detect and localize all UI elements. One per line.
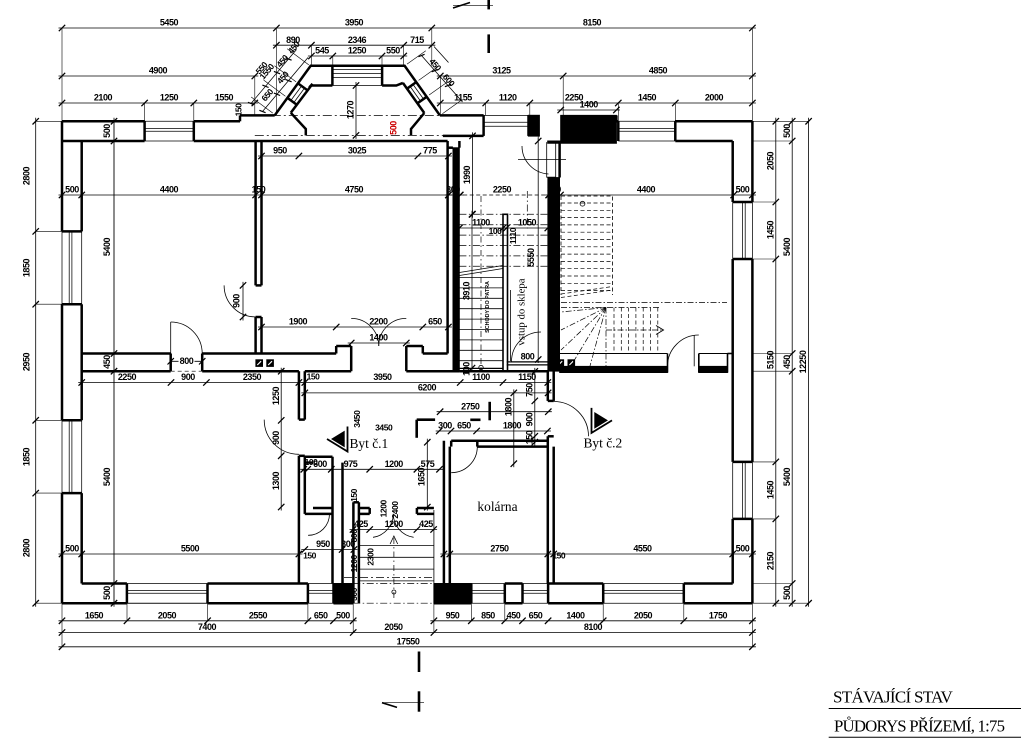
svg-text:17550: 17550 bbox=[397, 636, 420, 646]
svg-text:1800: 1800 bbox=[503, 421, 522, 431]
svg-text:1250: 1250 bbox=[160, 93, 179, 103]
svg-text:2750: 2750 bbox=[490, 544, 509, 554]
svg-text:2550: 2550 bbox=[249, 610, 268, 620]
window top W2 (right of bay) bbox=[443, 115, 529, 135]
svg-text:SCHODY DO PATRA: SCHODY DO PATRA bbox=[485, 281, 491, 333]
dashed lower flight + direction fan + arrow bbox=[561, 303, 727, 367]
dim 800 cellar door bbox=[521, 352, 535, 362]
svg-text:500: 500 bbox=[529, 120, 539, 134]
byt2 apartment door arc bbox=[554, 402, 589, 437]
svg-text:8100: 8100 bbox=[584, 622, 603, 632]
svg-text:2250: 2250 bbox=[493, 185, 512, 195]
wall leftroom/centerroom bbox=[256, 141, 262, 354]
entry left jamb pier (solid) bbox=[529, 115, 540, 136]
svg-text:1250: 1250 bbox=[348, 46, 367, 56]
svg-text:2150: 2150 bbox=[765, 551, 775, 570]
back exterior stairs treads + arrow bbox=[353, 510, 434, 604]
svg-text:2050: 2050 bbox=[765, 151, 775, 170]
svg-text:650: 650 bbox=[314, 610, 328, 620]
dim 5400 interior left bbox=[102, 118, 117, 607]
svg-text:500: 500 bbox=[336, 610, 350, 620]
dim line R 6200 bbox=[301, 383, 551, 397]
svg-text:1200: 1200 bbox=[378, 500, 388, 518]
double door arcs center room (1400) bbox=[351, 318, 406, 346]
svg-text:975: 975 bbox=[344, 459, 358, 469]
kolarna door arc bbox=[451, 447, 477, 473]
label Byt c.2 text bbox=[584, 436, 623, 451]
svg-text:1400: 1400 bbox=[369, 333, 388, 343]
svg-text:1270: 1270 bbox=[346, 100, 356, 119]
wall left exterior inner face pier3 bbox=[80, 493, 83, 583]
svg-text:300: 300 bbox=[349, 587, 359, 601]
svg-text:vstup do sklepa: vstup do sklepa bbox=[516, 278, 528, 345]
wall top right-of-bay outer face bbox=[440, 114, 484, 117]
svg-text:PŮDORYS PŘÍZEMÍ, 1:75: PŮDORYS PŘÍZEMÍ, 1:75 bbox=[834, 717, 1005, 736]
svg-text:1750: 1750 bbox=[709, 610, 728, 620]
svg-text:2800: 2800 bbox=[22, 166, 32, 185]
wall top-left inner face pierB bbox=[194, 140, 448, 143]
dim chain top row C bbox=[308, 46, 407, 60]
mid wall right room boundary thin bbox=[560, 353, 668, 355]
svg-text:5500: 5500 bbox=[181, 544, 200, 554]
hall south wall under stairs bbox=[459, 368, 547, 371]
wall right exterior inner face pier3 bbox=[731, 519, 734, 584]
svg-text:4750: 4750 bbox=[345, 185, 364, 195]
dim line U small chain bbox=[300, 457, 443, 473]
window bottom W1b (under wc room) bbox=[308, 584, 334, 604]
chimney flues left (two black squares) bbox=[256, 360, 274, 367]
svg-text:7400: 7400 bbox=[198, 622, 217, 632]
svg-text:100: 100 bbox=[305, 457, 319, 467]
dim chain top row B bbox=[273, 35, 435, 49]
stair treads upper stair bbox=[459, 191, 547, 365]
dim chain top row D bbox=[59, 66, 756, 80]
hall right wall (300) bbox=[548, 141, 560, 371]
svg-text:500: 500 bbox=[102, 124, 112, 138]
svg-text:850: 850 bbox=[481, 610, 495, 620]
svg-text:3450: 3450 bbox=[375, 423, 393, 433]
svg-text:450: 450 bbox=[782, 355, 792, 369]
title rule 2 bbox=[829, 736, 1021, 738]
svg-text:4550: 4550 bbox=[633, 544, 652, 554]
wall left exterior outer face bbox=[61, 121, 64, 603]
svg-text:STÁVAJÍCÍ STAV: STÁVAJÍCÍ STAV bbox=[833, 688, 953, 707]
wall top-right outer face bbox=[616, 115, 752, 121]
dim chain left F bbox=[22, 118, 39, 607]
svg-text:3450: 3450 bbox=[352, 410, 362, 428]
svg-text:500: 500 bbox=[65, 185, 79, 195]
bay flat-top window bbox=[332, 66, 382, 86]
svg-text:3950: 3950 bbox=[373, 372, 392, 382]
svg-text:4850: 4850 bbox=[649, 66, 668, 76]
svg-text:950: 950 bbox=[273, 146, 287, 156]
dim W byt1 door vertical bbox=[271, 368, 285, 511]
svg-text:2350: 2350 bbox=[243, 372, 262, 382]
hall left wall (300) bbox=[448, 141, 460, 371]
svg-text:900: 900 bbox=[271, 431, 281, 445]
svg-text:5550: 5550 bbox=[526, 248, 536, 267]
wall bottom pier kolarna (solid) bbox=[434, 584, 471, 604]
svg-text:150: 150 bbox=[303, 551, 317, 561]
svg-text:5400: 5400 bbox=[782, 237, 792, 256]
svg-text:2400: 2400 bbox=[390, 501, 400, 519]
dim back stairs verticals bbox=[349, 488, 400, 601]
dim diag bay left outer bbox=[248, 39, 302, 105]
dim chain bottom K bbox=[59, 610, 756, 624]
mid wall upper face bbox=[82, 352, 448, 355]
title line 1 bbox=[833, 688, 953, 707]
dim small 1100 1050 bbox=[456, 218, 551, 236]
svg-text:1800: 1800 bbox=[503, 397, 513, 416]
dim 425 1200 425 bbox=[350, 519, 438, 533]
back porch walls bbox=[353, 502, 434, 603]
window bottom W1 bbox=[127, 584, 208, 604]
window bottom W3 (kolarna b) bbox=[505, 584, 548, 604]
title line 2 bbox=[834, 717, 1005, 736]
mid wall lower face bbox=[82, 370, 460, 373]
dim Z 1650 vertical bbox=[417, 439, 431, 511]
svg-text:545: 545 bbox=[315, 46, 329, 56]
dim chain top row A bbox=[59, 18, 756, 32]
svg-text:950: 950 bbox=[446, 610, 460, 620]
svg-text:3950: 3950 bbox=[345, 18, 364, 28]
svg-text:300: 300 bbox=[438, 421, 452, 431]
wall top-left inner face pierA bbox=[62, 140, 145, 143]
dim chain bottom L bbox=[59, 622, 756, 636]
svg-text:1400: 1400 bbox=[566, 610, 585, 620]
svg-text:2346: 2346 bbox=[348, 35, 367, 45]
dim chain top row E bbox=[59, 93, 756, 107]
center room south recess bbox=[336, 346, 423, 371]
porch double door arcs bbox=[344, 514, 434, 578]
svg-text:4400: 4400 bbox=[637, 185, 656, 195]
svg-text:900: 900 bbox=[181, 372, 195, 382]
stair walk line with circle bbox=[479, 196, 483, 370]
svg-text:1650: 1650 bbox=[417, 467, 427, 486]
dim chain right H bbox=[765, 118, 779, 607]
svg-text:2000: 2000 bbox=[705, 93, 724, 103]
svg-text:150: 150 bbox=[349, 488, 359, 502]
svg-text:5400: 5400 bbox=[102, 467, 112, 486]
svg-text:1110: 1110 bbox=[508, 227, 518, 244]
svg-text:425: 425 bbox=[354, 519, 368, 529]
svg-text:425: 425 bbox=[419, 519, 433, 529]
svg-text:100: 100 bbox=[489, 226, 503, 236]
dim 3910 stair bbox=[462, 211, 476, 372]
svg-text:1650: 1650 bbox=[85, 610, 104, 620]
dim center room O bbox=[258, 146, 452, 160]
svg-text:150: 150 bbox=[552, 551, 566, 561]
svg-text:kolárna: kolárna bbox=[477, 499, 517, 514]
svg-text:1250: 1250 bbox=[271, 386, 281, 405]
svg-text:5400: 5400 bbox=[782, 467, 792, 486]
wall left exterior inner face pier1 bbox=[80, 141, 83, 231]
dim 2750 brackets bbox=[417, 401, 552, 438]
dim chain right J bbox=[798, 118, 812, 607]
svg-text:150: 150 bbox=[524, 430, 534, 444]
svg-text:1450: 1450 bbox=[765, 480, 775, 499]
svg-text:500: 500 bbox=[782, 124, 792, 138]
extension line entry bbox=[537, 129, 539, 141]
dashed stair flight above (upper run) bbox=[561, 196, 613, 298]
svg-text:500: 500 bbox=[65, 544, 79, 554]
svg-text:12250: 12250 bbox=[798, 350, 808, 373]
svg-text:500: 500 bbox=[736, 544, 750, 554]
extension lines right bbox=[752, 121, 808, 603]
svg-text:100: 100 bbox=[462, 362, 472, 376]
svg-text:2250: 2250 bbox=[118, 372, 137, 382]
svg-text:500: 500 bbox=[736, 185, 750, 195]
cellar door arc bbox=[512, 332, 542, 362]
svg-text:3910: 3910 bbox=[462, 281, 472, 300]
dim diag bay right bbox=[418, 47, 462, 103]
dim 3450 labels bbox=[352, 410, 393, 433]
svg-text:1300: 1300 bbox=[271, 471, 281, 490]
svg-text:1150: 1150 bbox=[518, 372, 536, 382]
svg-text:900: 900 bbox=[524, 412, 534, 426]
svg-text:650: 650 bbox=[529, 610, 543, 620]
dim interior line N (y=195) bbox=[59, 185, 756, 199]
section mark bottom bbox=[382, 652, 424, 712]
dim chain bottom M bbox=[59, 636, 756, 650]
svg-text:300: 300 bbox=[341, 539, 355, 549]
title rule 1 bbox=[829, 708, 1021, 710]
mid wall door jambs (left room door 800) bbox=[168, 354, 206, 372]
svg-text:2050: 2050 bbox=[634, 610, 653, 620]
wall bottom inner pier right bbox=[548, 582, 733, 585]
dim diag bay left inner bbox=[259, 58, 308, 113]
wall left exterior inner face pier2 bbox=[80, 304, 83, 420]
svg-text:2100: 2100 bbox=[94, 93, 113, 103]
mid wall right solid band bbox=[560, 354, 733, 373]
stair divider bar bbox=[503, 214, 508, 371]
wall right exterior inner face pier1 bbox=[731, 141, 734, 202]
bay left diagonal window bbox=[288, 84, 308, 105]
svg-text:1100: 1100 bbox=[472, 218, 490, 228]
window bottom W2 (kolarna a) bbox=[471, 584, 505, 604]
dim line T 300 650 1800 bbox=[436, 421, 551, 435]
dim line Q (y=382.5) bbox=[78, 372, 551, 386]
dim chain right I bbox=[782, 118, 796, 607]
window left W2 sill lines bbox=[62, 420, 82, 493]
svg-text:2050: 2050 bbox=[158, 610, 177, 620]
svg-text:800: 800 bbox=[180, 356, 194, 366]
svg-text:1200: 1200 bbox=[385, 519, 404, 529]
extension lines left bbox=[36, 121, 62, 603]
dim 1990 entry hall bbox=[462, 132, 476, 217]
byt1 apartment door arc bbox=[264, 420, 299, 455]
wall bottom pier porch-left (solid) bbox=[334, 584, 354, 604]
kolarna left wall bbox=[444, 441, 450, 584]
window top W3 bbox=[618, 121, 675, 141]
svg-text:1990: 1990 bbox=[462, 165, 472, 184]
byt2 north door jambs bbox=[668, 354, 728, 373]
window right W2 bbox=[733, 462, 753, 519]
dim center room P bbox=[258, 317, 452, 347]
bay diag extension lines right bbox=[407, 51, 461, 114]
section mark top bbox=[453, 0, 493, 53]
dim Y 1800 vertical bbox=[503, 389, 517, 467]
svg-text:300: 300 bbox=[446, 185, 460, 195]
wall bottom inner left pier bbox=[82, 582, 127, 585]
dim 500 entry rot bbox=[529, 120, 539, 134]
svg-text:650: 650 bbox=[457, 421, 471, 431]
label kolarna bbox=[477, 499, 517, 514]
wall top-left outer face bbox=[62, 115, 275, 121]
label vstup do sklepa bbox=[516, 278, 528, 345]
svg-text:150: 150 bbox=[234, 103, 244, 117]
bay right flank inner faces bbox=[382, 83, 424, 135]
svg-text:5450: 5450 bbox=[160, 18, 179, 28]
svg-text:450: 450 bbox=[102, 355, 112, 369]
door arc leftroom/centerroom (900) bbox=[224, 285, 256, 317]
svg-text:1200: 1200 bbox=[385, 459, 404, 469]
bay right diagonal window bbox=[407, 82, 427, 103]
svg-text:500: 500 bbox=[782, 586, 792, 600]
svg-text:4400: 4400 bbox=[160, 185, 179, 195]
svg-text:1120: 1120 bbox=[499, 93, 517, 103]
dim 900 room door vertical bbox=[232, 282, 247, 321]
bay opening centerlines dash-dot bbox=[255, 115, 474, 135]
svg-text:1100: 1100 bbox=[472, 372, 490, 382]
wc room walls bbox=[305, 457, 343, 584]
svg-text:Byt č.2: Byt č.2 bbox=[584, 436, 623, 451]
svg-text:300: 300 bbox=[547, 185, 561, 195]
svg-text:900: 900 bbox=[232, 294, 242, 308]
svg-text:1550: 1550 bbox=[215, 93, 234, 103]
bay window outer walls bbox=[275, 66, 440, 116]
svg-text:575: 575 bbox=[421, 459, 435, 469]
entry door leaf and arc bbox=[518, 142, 566, 177]
svg-text:1400: 1400 bbox=[580, 100, 599, 110]
svg-text:650: 650 bbox=[428, 317, 442, 327]
svg-text:8150: 8150 bbox=[583, 18, 602, 28]
label 150 top step bbox=[234, 103, 244, 117]
svg-text:4900: 4900 bbox=[149, 66, 168, 76]
svg-text:750: 750 bbox=[524, 383, 534, 397]
svg-text:715: 715 bbox=[410, 35, 424, 45]
svg-text:500: 500 bbox=[389, 121, 399, 135]
wall top-right inner face bbox=[675, 140, 732, 143]
kolarna top wall bbox=[451, 441, 548, 447]
wall bottom outer face bbox=[62, 602, 752, 605]
interior guide vertical x=114 bbox=[113, 121, 115, 603]
label Byt c.1 text bbox=[350, 436, 389, 451]
wc door arc bbox=[308, 514, 329, 535]
svg-text:Byt č.1: Byt č.1 bbox=[350, 436, 389, 451]
svg-text:3025: 3025 bbox=[348, 146, 367, 156]
corridor left wall bbox=[299, 371, 305, 583]
svg-text:1050: 1050 bbox=[518, 218, 537, 228]
label 100 stair bbox=[462, 362, 472, 376]
label SCHODY DO PATRA bbox=[485, 281, 491, 333]
svg-text:1850: 1850 bbox=[22, 258, 32, 277]
svg-text:1850: 1850 bbox=[22, 447, 32, 466]
wall right exterior inner face pier2 bbox=[731, 259, 734, 462]
byt2 left wall bbox=[548, 371, 554, 583]
svg-text:550: 550 bbox=[386, 46, 400, 56]
svg-text:775: 775 bbox=[423, 146, 437, 156]
window left W1 sill lines bbox=[62, 231, 82, 304]
window top W1 bbox=[145, 121, 194, 141]
bay left flank inner faces bbox=[291, 84, 333, 135]
svg-text:500: 500 bbox=[102, 586, 112, 600]
chimney flues right (two black squares) bbox=[557, 360, 575, 367]
label Byt c.1 triangle bbox=[327, 427, 348, 452]
svg-text:5400: 5400 bbox=[102, 237, 112, 256]
svg-text:2750: 2750 bbox=[461, 401, 480, 411]
dim line V (y=554) bbox=[59, 544, 756, 561]
bay offset label 500 red bbox=[389, 121, 399, 135]
dim X byt2 door vertical bbox=[524, 368, 538, 446]
svg-text:150: 150 bbox=[307, 372, 321, 382]
svg-text:1450: 1450 bbox=[765, 220, 775, 239]
svg-text:6200: 6200 bbox=[418, 383, 437, 393]
svg-text:3125: 3125 bbox=[492, 66, 511, 76]
svg-text:1200: 1200 bbox=[349, 555, 359, 573]
extension lines top bbox=[62, 28, 752, 121]
svg-text:800: 800 bbox=[521, 352, 535, 362]
label Byt c.2 triangle bbox=[592, 408, 613, 433]
svg-text:1450: 1450 bbox=[638, 93, 657, 103]
svg-text:2300: 2300 bbox=[365, 548, 375, 566]
svg-text:950: 950 bbox=[316, 539, 330, 549]
window bottom W4 (byt2 room) bbox=[603, 584, 684, 604]
svg-text:2200: 2200 bbox=[369, 317, 388, 327]
bay diag extension lines left bbox=[251, 49, 309, 113]
dim 1400 entry top bbox=[557, 100, 620, 114]
wall bottom inner pier2 bbox=[208, 582, 308, 585]
wall right exterior outer face bbox=[751, 121, 754, 603]
door arc left room (800) bbox=[171, 322, 203, 354]
entry 1400 wall block (solid) bbox=[548, 115, 617, 143]
dim 1270 bay bbox=[346, 82, 360, 139]
svg-text:1155: 1155 bbox=[454, 93, 472, 103]
svg-text:2950: 2950 bbox=[22, 352, 32, 371]
dim 950 300 row bbox=[301, 539, 357, 553]
byt2 north door arc bbox=[668, 335, 699, 366]
svg-text:2050: 2050 bbox=[384, 622, 403, 632]
dim 1110 5550 bbox=[508, 138, 541, 364]
svg-text:2800: 2800 bbox=[22, 538, 32, 557]
extension lines bottom bbox=[62, 603, 752, 647]
svg-text:150: 150 bbox=[252, 185, 266, 195]
svg-text:1900: 1900 bbox=[289, 317, 308, 327]
window right W1 bbox=[733, 202, 753, 259]
svg-text:450: 450 bbox=[507, 610, 521, 620]
